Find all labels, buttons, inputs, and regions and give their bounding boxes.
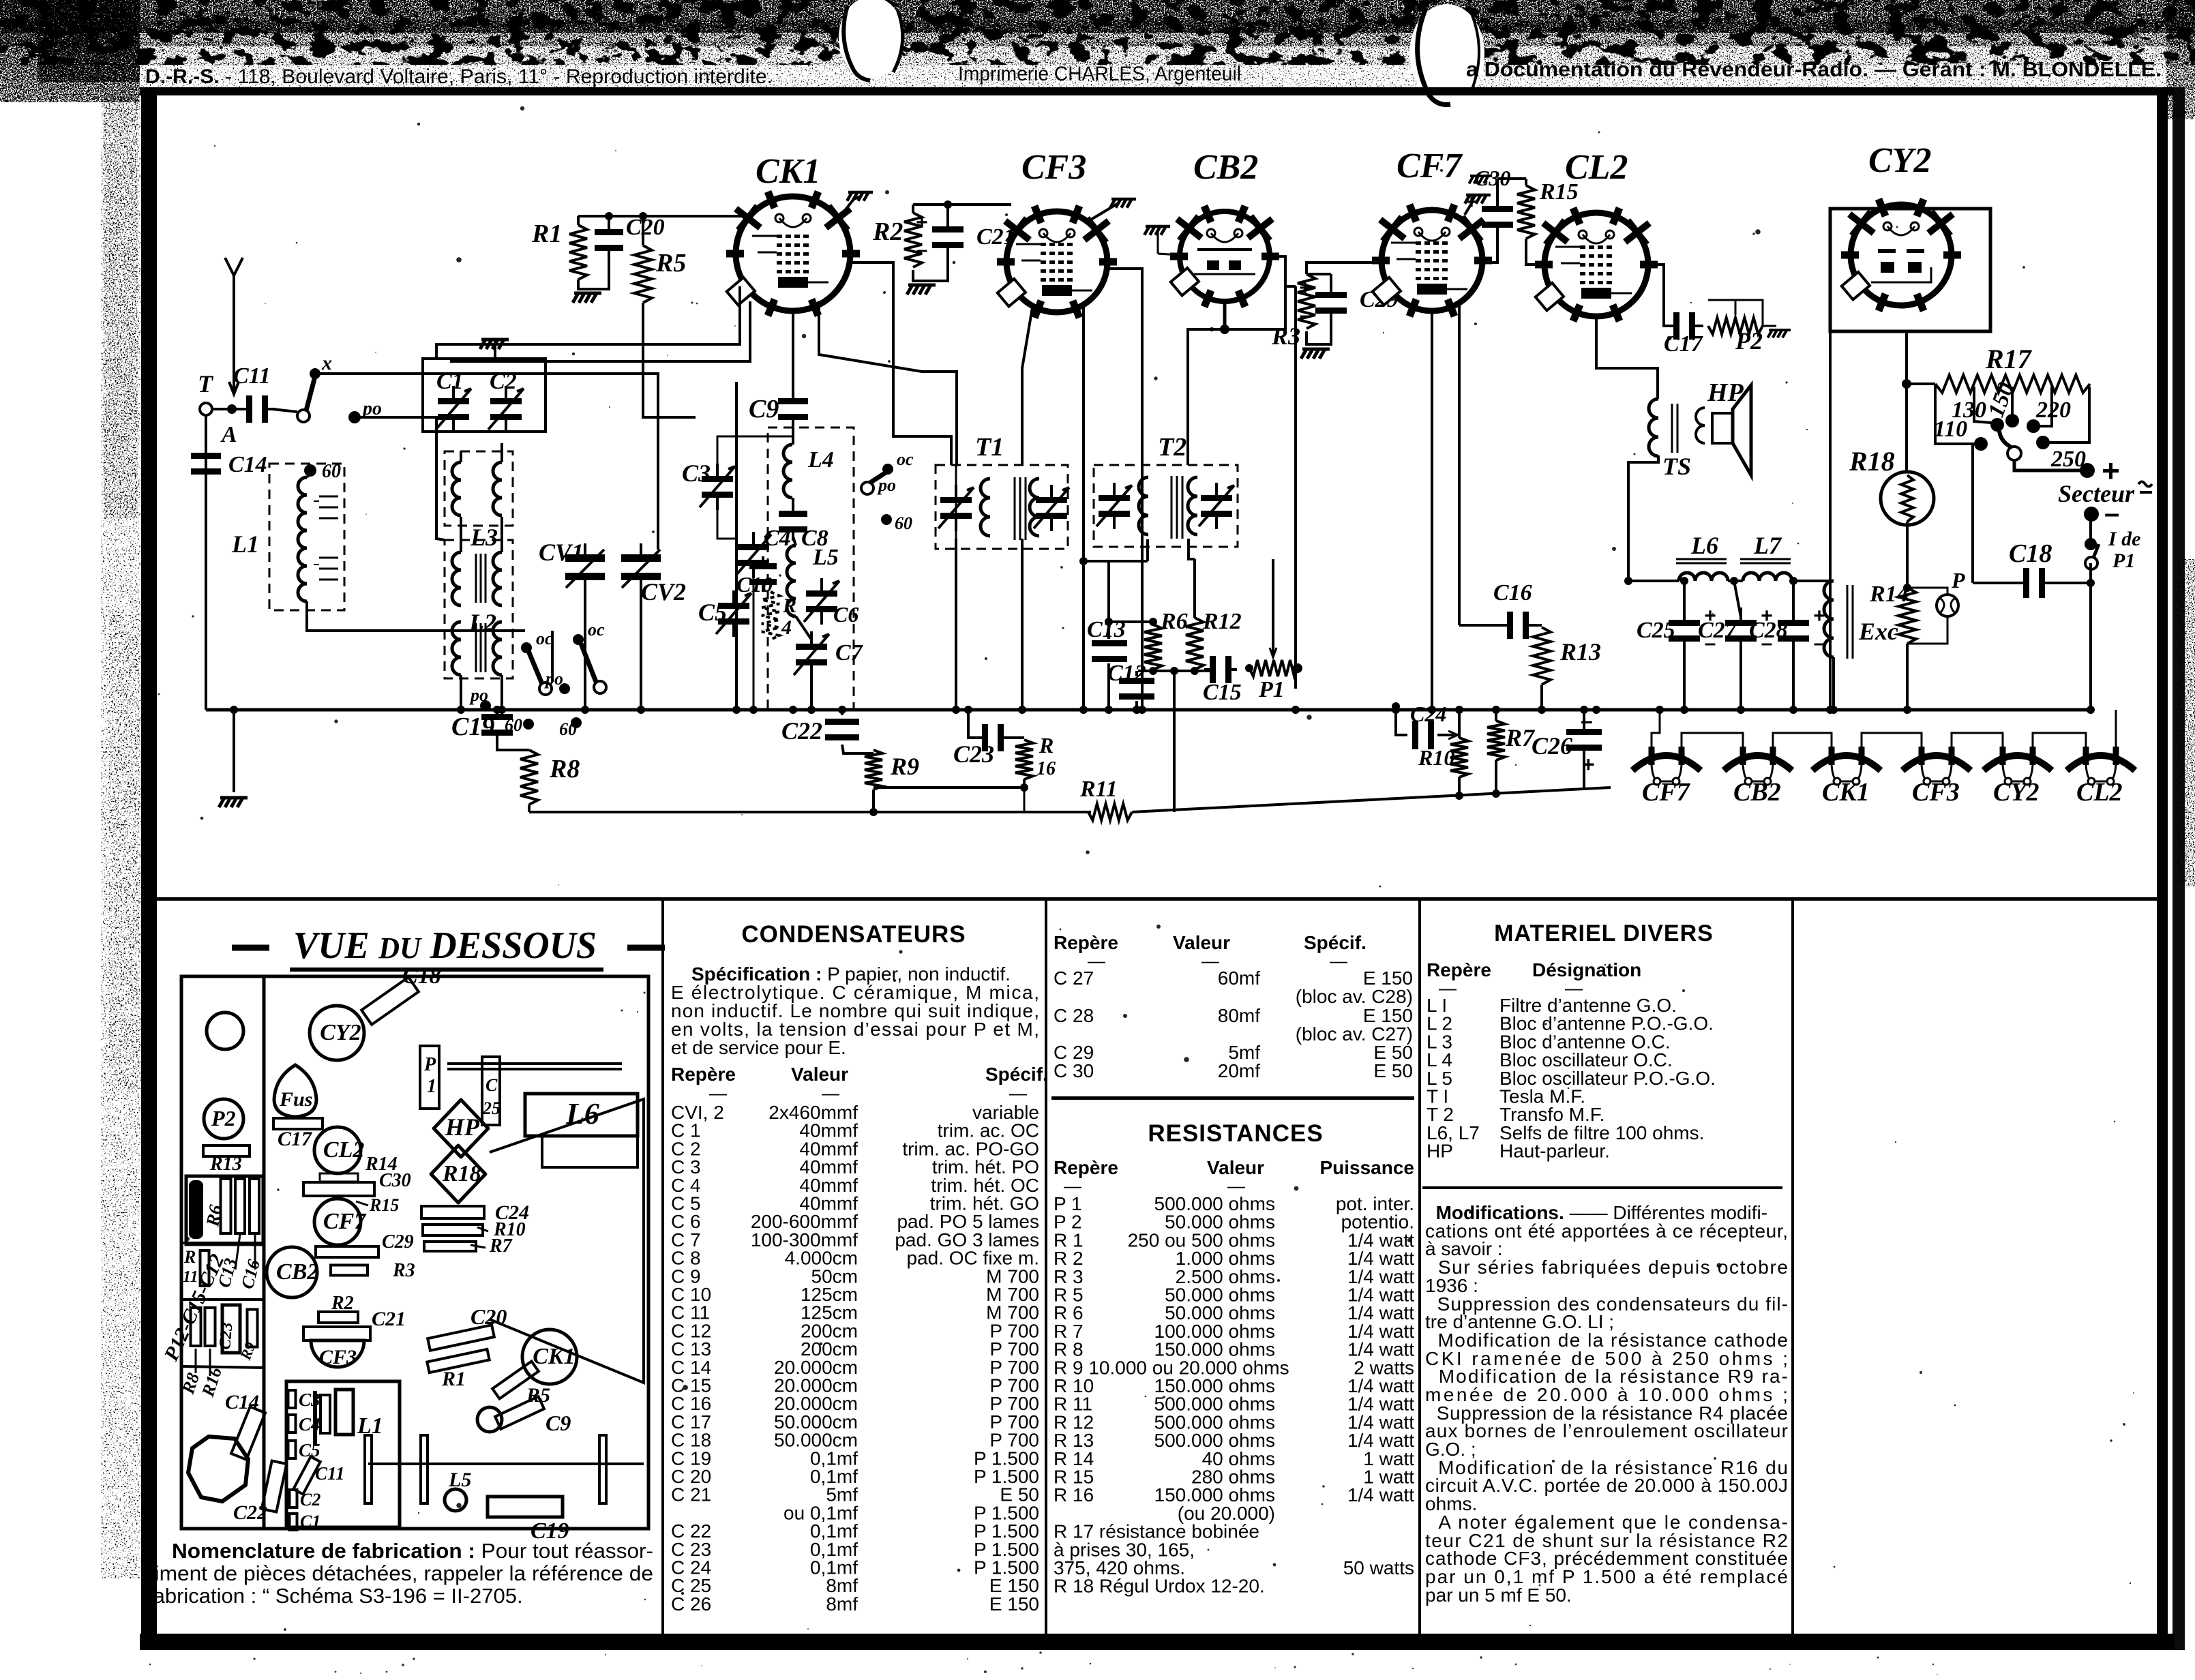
svg-text:C12: C12 bbox=[1107, 661, 1146, 686]
heater CK1 bbox=[1812, 755, 1881, 770]
svg-text:aux bornes de l’enroulement os: aux bornes de l’enroulement oscillateur bbox=[1425, 1420, 1788, 1441]
svg-text:C 26: C 26 bbox=[671, 1593, 711, 1615]
wire L1 bottom bbox=[307, 601, 525, 631]
column divider 3 bbox=[1418, 901, 1421, 1634]
capacitor C16 bbox=[1499, 612, 1537, 639]
svg-text:Désignation: Désignation bbox=[1532, 959, 1641, 980]
svg-text:I de: I de bbox=[2108, 528, 2141, 550]
capacitor C9 bbox=[778, 390, 808, 428]
svg-text:HP: HP bbox=[1427, 1141, 1453, 1162]
svg-text:L5: L5 bbox=[448, 1469, 471, 1491]
ground CF7 bbox=[1465, 195, 1491, 204]
tube CK1 bbox=[726, 192, 860, 316]
ground R2 bbox=[913, 251, 948, 281]
svg-text:CB2: CB2 bbox=[1193, 148, 1258, 187]
resistor R14 bbox=[1906, 522, 1909, 588]
svg-text:R8: R8 bbox=[549, 755, 580, 783]
capacitor C22 bbox=[825, 719, 859, 740]
trimmer C7 bbox=[796, 631, 827, 678]
svg-text:R9: R9 bbox=[890, 753, 919, 780]
wire CF3 bottom bbox=[1022, 303, 1033, 465]
svg-text:20mf: 20mf bbox=[1218, 1060, 1260, 1081]
resistor R9 bbox=[865, 750, 882, 790]
coil L5 bbox=[787, 545, 796, 616]
part HP bbox=[434, 1100, 488, 1157]
svg-text:E 150: E 150 bbox=[989, 1593, 1039, 1615]
svg-text:P: P bbox=[1951, 568, 1965, 592]
svg-text:C3: C3 bbox=[299, 1390, 320, 1410]
svg-text:P2: P2 bbox=[1735, 327, 1763, 355]
wire CY2 left drop bbox=[1829, 331, 1832, 710]
svg-text:CY2: CY2 bbox=[1993, 778, 2040, 807]
ground CF3 bbox=[1110, 199, 1136, 208]
svg-text:R17: R17 bbox=[1985, 344, 2033, 374]
svg-text:et de service pour E.: et de service pour E. bbox=[671, 1037, 846, 1058]
capacitor C10 bbox=[749, 556, 777, 592]
capacitor C18 bbox=[2015, 568, 2053, 598]
svg-text:Repère: Repère bbox=[1054, 932, 1118, 953]
svg-text:CV1: CV1 bbox=[539, 539, 584, 566]
wire CY2 bottom bbox=[1905, 331, 1908, 469]
svg-text:CL2: CL2 bbox=[323, 1137, 364, 1162]
svg-text:CK1: CK1 bbox=[756, 152, 820, 191]
capacitor C24 bbox=[1396, 706, 1407, 735]
resistor R15 bbox=[1517, 185, 1535, 239]
socket P2 bbox=[204, 1099, 243, 1139]
svg-text:po: po bbox=[877, 475, 896, 495]
svg-text:C28: C28 bbox=[1749, 618, 1788, 643]
wire CK1 right bbox=[850, 262, 951, 465]
svg-text:R18: R18 bbox=[1849, 446, 1895, 477]
svg-text:C14: C14 bbox=[225, 1391, 259, 1413]
svg-text:T1: T1 bbox=[975, 433, 1004, 462]
tap 110 bbox=[1935, 384, 1976, 444]
tube CF3 bbox=[997, 206, 1117, 318]
potentiometer P2 bbox=[1708, 318, 1763, 334]
svg-text:C17: C17 bbox=[278, 1128, 312, 1150]
antenna bbox=[225, 258, 243, 275]
wire main bus to right bbox=[1630, 708, 2091, 712]
svg-text:E 50: E 50 bbox=[1373, 1060, 1413, 1081]
wire CK1 anode step bbox=[819, 301, 957, 465]
heater CF3 bbox=[1902, 755, 1971, 770]
chassis inner wall bbox=[263, 976, 266, 1529]
ground CB2 bbox=[1144, 226, 1170, 235]
terminal T bbox=[200, 403, 212, 415]
wire T1 to bus bbox=[955, 465, 957, 539]
svg-text:C21: C21 bbox=[372, 1308, 406, 1330]
trimmer C5 bbox=[718, 590, 749, 637]
resistor R11 bbox=[529, 811, 1091, 813]
wire C11-switch bbox=[272, 409, 297, 412]
rule before modifications bbox=[1422, 1186, 1782, 1189]
part C22 bbox=[262, 1460, 286, 1512]
svg-text:R7: R7 bbox=[489, 1235, 513, 1257]
resistor R1 bbox=[569, 225, 587, 280]
svg-text:—: — bbox=[709, 1083, 727, 1103]
trimmer C3 bbox=[702, 464, 733, 510]
terminal minus bbox=[2084, 507, 2099, 522]
tuning shaft bbox=[368, 1462, 644, 1465]
svg-text:CL2: CL2 bbox=[2076, 778, 2123, 807]
switch S-osc bbox=[882, 464, 893, 475]
svg-text:+: + bbox=[916, 211, 928, 234]
svg-text:C4: C4 bbox=[299, 1414, 320, 1435]
wire CF7 bottom bbox=[1431, 311, 1433, 710]
part C23 R9 group bbox=[191, 1308, 201, 1346]
capacitor C15 bbox=[1204, 656, 1237, 683]
svg-text:C4: C4 bbox=[764, 526, 791, 551]
wire filter bus bbox=[1629, 580, 1630, 582]
svg-text:A: A bbox=[220, 422, 237, 447]
border frame top bbox=[140, 87, 2175, 95]
svg-text:CONDENSATEURS: CONDENSATEURS bbox=[741, 921, 966, 948]
tap 250 bbox=[2048, 387, 2089, 442]
rule before resistances bbox=[1051, 1096, 1414, 1100]
svg-text:C27: C27 bbox=[1698, 618, 1738, 643]
svg-text:a Documentation du Revendeur-R: a Documentation du Revendeur-Radio. — Gé… bbox=[1466, 57, 2162, 81]
svg-text:—: — bbox=[1330, 950, 1347, 971]
border frame bottom bbox=[140, 1634, 2175, 1650]
capacitor C30 bbox=[1482, 194, 1513, 240]
svg-text:CK1: CK1 bbox=[533, 1344, 575, 1369]
capacitor C20 bbox=[595, 221, 623, 259]
svg-text:Repère: Repère bbox=[671, 1064, 736, 1085]
svg-text:1: 1 bbox=[427, 1076, 436, 1097]
tube CB2 bbox=[1170, 206, 1279, 307]
bars C13 C16 in block bbox=[221, 1179, 231, 1233]
svg-text:C5: C5 bbox=[698, 599, 727, 626]
part L5 bbox=[445, 1489, 466, 1511]
svg-text:CF3: CF3 bbox=[1021, 148, 1086, 187]
section divider horizontal bbox=[150, 897, 2157, 901]
coil L3 bbox=[445, 451, 513, 526]
svg-text:C1: C1 bbox=[300, 1512, 320, 1531]
wire CF3 cathode bbox=[1082, 305, 1085, 710]
svg-text:CF3: CF3 bbox=[1912, 778, 1960, 807]
svg-text:L2: L2 bbox=[468, 609, 496, 636]
wire CL2 bottom bbox=[1596, 316, 1658, 399]
socket CF7 bbox=[314, 1199, 361, 1245]
capacitor C23 bbox=[976, 724, 1009, 751]
svg-text:C26: C26 bbox=[1532, 732, 1572, 760]
socket CL2 bbox=[314, 1127, 361, 1173]
svg-text:C18: C18 bbox=[2009, 539, 2052, 568]
wire x-line bbox=[318, 374, 658, 550]
part octagon bbox=[188, 1437, 248, 1501]
tap 220 bbox=[2038, 387, 2052, 426]
svg-text:+: + bbox=[1465, 191, 1478, 213]
svg-text:P1: P1 bbox=[1258, 677, 1285, 702]
capacitor C17 bbox=[1665, 312, 1703, 340]
svg-text:L7: L7 bbox=[1753, 532, 1782, 559]
chassis outline bbox=[181, 976, 648, 1529]
svg-text:C25: C25 bbox=[1637, 618, 1675, 643]
svg-text:Spécif.: Spécif. bbox=[985, 1064, 1048, 1085]
svg-text:C19: C19 bbox=[451, 712, 494, 741]
svg-text:TS: TS bbox=[1662, 453, 1691, 480]
capacitor C13 bbox=[1092, 640, 1127, 662]
svg-text:C23: C23 bbox=[953, 740, 994, 768]
svg-text:CL2: CL2 bbox=[1565, 148, 1628, 187]
svg-text:R13: R13 bbox=[1559, 638, 1601, 665]
svg-text:130: 130 bbox=[1952, 397, 1986, 423]
svg-text:R3: R3 bbox=[392, 1260, 415, 1281]
wire L3 tops bbox=[460, 451, 462, 462]
tube CF7 bbox=[1372, 205, 1492, 316]
svg-text:R1: R1 bbox=[531, 220, 562, 248]
svg-text:C20: C20 bbox=[471, 1304, 507, 1329]
oscillator box L4 L5 bbox=[768, 427, 854, 710]
resistor R10 bbox=[1450, 738, 1468, 777]
svg-text:C24: C24 bbox=[1410, 702, 1446, 726]
tap 150 bbox=[2011, 387, 2014, 416]
wire L2 switch to CV bbox=[551, 631, 554, 682]
svg-text:C22: C22 bbox=[781, 717, 822, 745]
svg-text:CK1: CK1 bbox=[1822, 778, 1870, 807]
box C1 C2 bbox=[423, 359, 546, 432]
wire L3-L2 bbox=[460, 517, 462, 552]
svg-text:fabrication : “ Schéma S3-196: fabrication : “ Schéma S3-196 = II-2705. bbox=[147, 1584, 523, 1608]
svg-text:—: — bbox=[822, 1083, 839, 1103]
svg-text:CY2: CY2 bbox=[320, 1020, 361, 1045]
capacitor C25 bbox=[1669, 607, 1700, 654]
border frame left bbox=[141, 87, 157, 1650]
svg-text:R: R bbox=[782, 595, 796, 617]
variable capacitor CV2 bbox=[621, 543, 661, 591]
resistor R3 bbox=[1298, 274, 1315, 329]
wire CB2 bottom bbox=[1223, 301, 1227, 329]
wire R5 down bbox=[643, 303, 696, 417]
tap 130 bbox=[1974, 387, 1991, 423]
svg-text:–: – bbox=[1300, 304, 1311, 327]
svg-text:Fus: Fus bbox=[279, 1088, 312, 1111]
coil L1 bbox=[269, 464, 344, 610]
transformer T2 bbox=[1094, 465, 1238, 547]
wire 60-L1 bbox=[307, 476, 308, 477]
tube CY2 bbox=[1830, 209, 1990, 331]
capacitor C26 bbox=[1566, 729, 1602, 751]
ground above L3 bbox=[480, 340, 509, 349]
part C20 bbox=[428, 1325, 494, 1351]
svg-text:R 16: R 16 bbox=[1054, 1484, 1094, 1505]
svg-text:R3: R3 bbox=[1271, 322, 1300, 350]
part C25 bbox=[482, 1057, 500, 1125]
svg-text:R: R bbox=[183, 1247, 196, 1267]
border frame right bbox=[2157, 87, 2168, 1650]
svg-text:C6: C6 bbox=[833, 602, 858, 627]
resistor R4 dashed bbox=[762, 592, 779, 640]
svg-text:R2: R2 bbox=[872, 217, 903, 246]
svg-text:CF3: CF3 bbox=[319, 1346, 357, 1368]
svg-text:R: R bbox=[1039, 733, 1054, 757]
svg-text:po: po bbox=[469, 685, 488, 705]
svg-text:C18: C18 bbox=[402, 963, 441, 989]
trimmer C2 bbox=[490, 386, 522, 432]
heater CB2 bbox=[1724, 755, 1792, 770]
svg-text:60mf: 60mf bbox=[1218, 967, 1260, 989]
svg-text:C11: C11 bbox=[233, 363, 271, 389]
svg-text:25: 25 bbox=[482, 1098, 501, 1118]
svg-text:CF7: CF7 bbox=[323, 1209, 367, 1234]
svg-text:R 18 Régul Urdox 12-20.: R 18 Régul Urdox 12-20. bbox=[1054, 1576, 1265, 1597]
part R5 bbox=[492, 1362, 539, 1399]
svg-text:R12: R12 bbox=[1202, 609, 1242, 634]
svg-text:R5: R5 bbox=[655, 249, 686, 277]
svg-text:60: 60 bbox=[559, 719, 577, 739]
ground P2 bbox=[1763, 325, 1776, 327]
switch I de P1 bbox=[2089, 514, 2092, 542]
resistor R8 bbox=[497, 740, 529, 750]
socket CF3 dome bbox=[311, 1340, 364, 1367]
part C24 R10 R7 bbox=[421, 1206, 484, 1218]
wire filter caps to bus bbox=[1680, 706, 1688, 714]
wire TS bottom bbox=[1628, 455, 1658, 581]
wire CK1 grid lines bbox=[436, 286, 740, 359]
switch S-L2 bbox=[573, 634, 584, 645]
svg-text:CV2: CV2 bbox=[641, 578, 686, 605]
svg-text:R11: R11 bbox=[1079, 777, 1118, 802]
column divider 2 bbox=[1045, 901, 1047, 1634]
coil L2 bbox=[445, 540, 513, 678]
speaker HP bbox=[1696, 408, 1705, 443]
wire CF3 left bbox=[1006, 260, 1011, 263]
column divider 1 bbox=[661, 901, 664, 1634]
svg-text:L1: L1 bbox=[231, 530, 259, 558]
svg-text:Repère: Repère bbox=[1427, 959, 1491, 980]
svg-text:—: — bbox=[1009, 1083, 1027, 1103]
resistor R13 bbox=[1533, 624, 1542, 627]
resistor R12 bbox=[1193, 559, 1196, 618]
svg-text:C 27: C 27 bbox=[1054, 967, 1094, 989]
heater chain wires bbox=[1682, 733, 1743, 749]
svg-text:+: + bbox=[1582, 752, 1595, 777]
choke L6 bbox=[1679, 573, 1728, 581]
svg-text:+: + bbox=[1299, 277, 1311, 299]
svg-text:circuit A.V.C. portée de 20.00: circuit A.V.C. portée de 20.000 à 150.00… bbox=[1425, 1475, 1788, 1496]
trimmer C4 bbox=[738, 532, 769, 578]
svg-text:11: 11 bbox=[183, 1268, 198, 1286]
heater CL2 bbox=[2067, 755, 2135, 770]
heater CF7 bbox=[1632, 755, 1701, 770]
svg-text:par un 5 mf E 50.: par un 5 mf E 50. bbox=[1425, 1585, 1572, 1606]
svg-text:Imprimerie CHARLES, Argenteuil: Imprimerie CHARLES, Argenteuil bbox=[958, 63, 1241, 85]
svg-text:C9: C9 bbox=[749, 395, 779, 423]
resistor R7 bbox=[1487, 721, 1505, 760]
capacitor C19 bbox=[481, 707, 513, 742]
svg-text:C 28: C 28 bbox=[1054, 1005, 1094, 1026]
node A bbox=[227, 404, 237, 414]
svg-text:R13: R13 bbox=[209, 1154, 242, 1175]
svg-text:C13: C13 bbox=[1087, 617, 1126, 642]
svg-text:C15: C15 bbox=[1203, 680, 1242, 705]
switch S-L1 bbox=[521, 642, 532, 653]
svg-text:RESISTANCES: RESISTANCES bbox=[1148, 1120, 1323, 1147]
resistor R18 urdox bbox=[1881, 472, 1934, 525]
resistor R17 bbox=[1935, 375, 2090, 393]
ground C30 bbox=[1469, 176, 1492, 183]
svg-text:–: – bbox=[1466, 218, 1478, 241]
svg-text:R1: R1 bbox=[441, 1368, 466, 1390]
socket CB2 bbox=[267, 1247, 317, 1297]
svg-text:60: 60 bbox=[895, 513, 912, 533]
wire L7-Exc bbox=[1792, 580, 1834, 582]
svg-text:P2: P2 bbox=[211, 1106, 236, 1130]
node L6-L7 bbox=[1730, 577, 1738, 585]
svg-text:C17: C17 bbox=[1664, 331, 1704, 357]
resistor R16 bbox=[1015, 740, 1033, 779]
socket CK1 bbox=[522, 1330, 577, 1384]
part R6 wedge bbox=[189, 1180, 203, 1239]
svg-text:Sur séries fabriquées depuis o: Sur séries fabriquées depuis octobre bbox=[1425, 1257, 1788, 1278]
svg-text:L5: L5 bbox=[812, 545, 839, 570]
wire right column bbox=[2089, 563, 2092, 710]
svg-text:T2: T2 bbox=[1158, 433, 1186, 462]
svg-text:16: 16 bbox=[1036, 758, 1056, 779]
svg-text:–: – bbox=[916, 239, 928, 261]
svg-text:L6: L6 bbox=[1690, 532, 1718, 559]
lamp P bbox=[1937, 595, 1958, 616]
capacitor C21 bbox=[932, 214, 964, 260]
svg-text:MATERIEL DIVERS: MATERIEL DIVERS bbox=[1494, 920, 1714, 946]
svg-text:VUE DU DESSOUS: VUE DU DESSOUS bbox=[293, 925, 597, 967]
svg-text:R6: R6 bbox=[1160, 609, 1188, 634]
svg-text:CY2: CY2 bbox=[1868, 141, 1931, 180]
svg-text:CB2: CB2 bbox=[276, 1259, 318, 1285]
part C18 bbox=[361, 977, 419, 1024]
wire osc area bbox=[735, 382, 738, 710]
svg-text:oc: oc bbox=[536, 629, 553, 648]
resistor R5 bbox=[634, 245, 652, 303]
svg-text:R2: R2 bbox=[331, 1293, 354, 1314]
svg-text:4: 4 bbox=[781, 616, 792, 639]
svg-text:Secteur: Secteur bbox=[2058, 480, 2135, 507]
svg-text:L3: L3 bbox=[470, 524, 498, 551]
part L6 bbox=[525, 1094, 638, 1136]
svg-text:P1: P1 bbox=[2112, 550, 2135, 572]
svg-text:–: – bbox=[1581, 708, 1593, 733]
socket CY2 bbox=[310, 1006, 364, 1060]
svg-text:C16: C16 bbox=[1493, 580, 1532, 605]
coil block L1 bbox=[286, 1381, 400, 1527]
ground bus left bbox=[233, 710, 235, 792]
svg-text:C22: C22 bbox=[233, 1501, 267, 1524]
part C21 bbox=[303, 1327, 370, 1340]
svg-text:C29: C29 bbox=[382, 1231, 414, 1252]
svg-text:C7: C7 bbox=[835, 640, 864, 665]
capacitor C27 bbox=[1725, 607, 1757, 654]
wire po-line bbox=[357, 417, 445, 540]
svg-text:(bloc av. C28): (bloc av. C28) bbox=[1296, 986, 1413, 1007]
filter block box bbox=[186, 1176, 263, 1244]
wire T2 bottom jogs bbox=[1146, 539, 1149, 561]
svg-text:HP: HP bbox=[445, 1113, 480, 1141]
part C9 bbox=[477, 1407, 502, 1432]
wire C13 column bbox=[1107, 561, 1110, 622]
svg-text:oc: oc bbox=[588, 620, 605, 640]
svg-text:x: x bbox=[321, 352, 332, 374]
svg-text:Exc: Exc bbox=[1858, 618, 1898, 645]
part C30 bbox=[303, 1182, 374, 1196]
wire selector to plus bbox=[2014, 460, 2081, 470]
capacitor C8 bbox=[779, 502, 807, 541]
svg-text:T: T bbox=[198, 370, 214, 397]
wire C18 right bbox=[2049, 582, 2091, 584]
svg-text:C3: C3 bbox=[682, 460, 711, 487]
field coil Exc bbox=[1824, 581, 1834, 657]
svg-text:R6: R6 bbox=[202, 1203, 226, 1229]
svg-text:Haut-parleur.: Haut-parleur. bbox=[1499, 1141, 1610, 1162]
